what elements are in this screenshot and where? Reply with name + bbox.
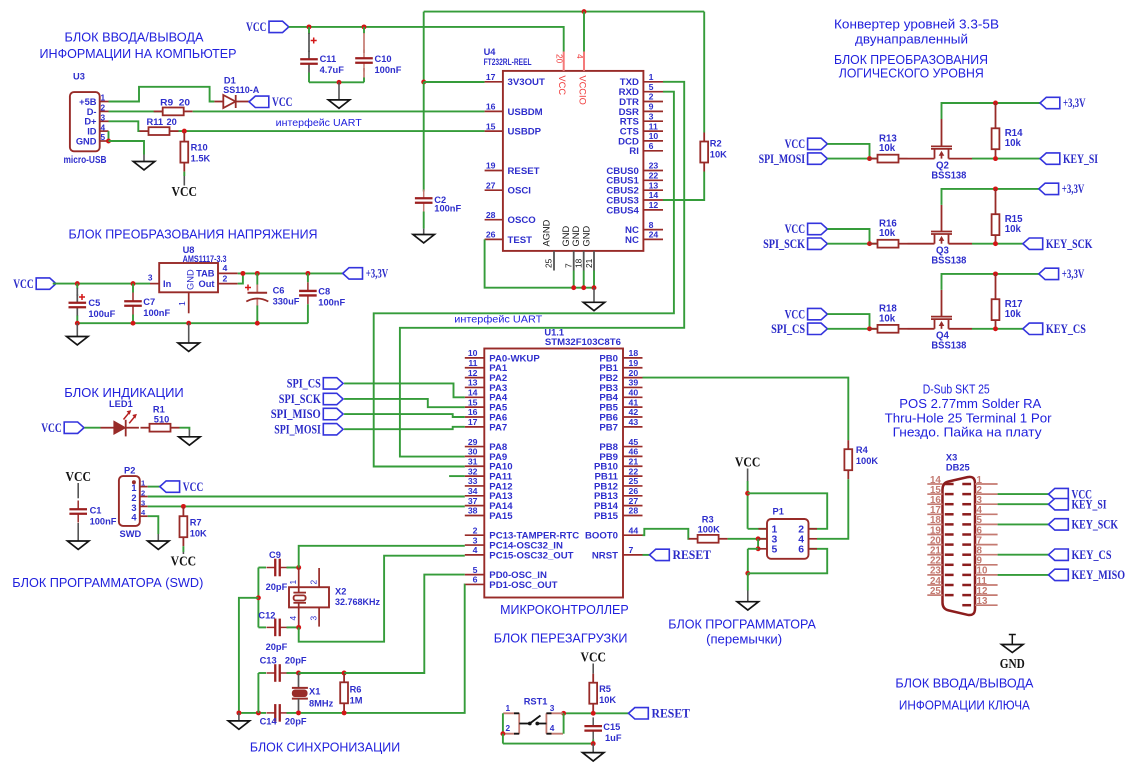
resistor R3: [689, 535, 728, 543]
wire to R2: [703, 12, 705, 133]
svg-text:SS110-A: SS110-A: [223, 85, 259, 95]
svg-text:БЛОК ПРОГРАММАТОРА (SWD): БЛОК ПРОГРАММАТОРА (SWD): [12, 576, 203, 590]
svg-text:БЛОК ВВОДА/ВЫВОДА: БЛОК ВВОДА/ВЫВОДА: [65, 31, 205, 45]
flag +3,3V regulator out: [343, 267, 389, 281]
wire R2 to CBUS3: [663, 172, 704, 201]
resistor R7: [180, 507, 188, 546]
wire to key flag: [972, 243, 1023, 245]
svg-text:10K: 10K: [190, 529, 207, 539]
svg-text:МИКРОКОНТРОЛЛЕР: МИКРОКОНТРОЛЛЕР: [500, 603, 629, 617]
svg-text:STM32F103C8T6: STM32F103C8T6: [545, 337, 621, 347]
IC U1.1 STM32F103C8T6: [465, 328, 643, 598]
resistor R6: [340, 673, 348, 712]
svg-text:20pF: 20pF: [266, 642, 288, 652]
wire to C8: [307, 273, 309, 282]
flag VCC LED: [41, 421, 84, 435]
svg-text:+3,3V: +3,3V: [1062, 182, 1085, 196]
wire C11 to gnd rail: [308, 73, 310, 83]
svg-text:TEST: TEST: [508, 235, 533, 246]
svg-text:22: 22: [649, 171, 659, 181]
svg-text:C12: C12: [258, 610, 275, 620]
svg-text:18: 18: [629, 348, 639, 358]
svg-text:C11: C11: [320, 54, 337, 64]
svg-text:Thru-Hole 25 Terminal 1 Por: Thru-Hole 25 Terminal 1 Por: [885, 412, 1052, 426]
wire pin5 left: [748, 548, 758, 550]
svg-text:GND: GND: [1000, 656, 1025, 671]
wire to pin1: [748, 528, 767, 530]
svg-text:AGND: AGND: [542, 219, 552, 246]
svg-text:ИНФОРМАЦИИ НА КОМПЬЮТЕР: ИНФОРМАЦИИ НА КОМПЬЮТЕР: [40, 47, 237, 61]
svg-text:SPI_SCK: SPI_SCK: [763, 237, 805, 251]
svg-text:5: 5: [101, 132, 106, 142]
wire to PC14: [299, 546, 465, 568]
junction: [867, 326, 872, 331]
svg-text:4: 4: [101, 122, 106, 132]
junction: [592, 285, 597, 290]
svg-text:3V3OUT: 3V3OUT: [508, 77, 545, 88]
wire BOOT0 to R3: [643, 529, 690, 539]
wire reset gnd row: [503, 743, 593, 745]
flag VCC regulator input: [13, 277, 56, 291]
svg-text:VCC: VCC: [580, 650, 606, 665]
junction: [307, 24, 312, 29]
svg-text:10: 10: [468, 348, 478, 358]
resistor R15: [992, 189, 1000, 244]
wire to C5: [76, 284, 78, 289]
wire VCC rail to U4 pin20: [289, 27, 564, 52]
svg-text:1uF: 1uF: [605, 733, 622, 743]
capacitor C8 100nF: [299, 282, 317, 304]
svg-text:16: 16: [468, 407, 478, 417]
svg-text:4: 4: [223, 263, 228, 273]
svg-text:3: 3: [473, 535, 478, 545]
wire GND net: [109, 141, 145, 155]
wire D- to USBDM: [193, 110, 485, 112]
wire cap gnd rail: [309, 81, 364, 83]
svg-text:C13: C13: [260, 656, 277, 666]
junction: [240, 271, 245, 276]
wire VCC to U8 In: [53, 283, 150, 285]
wire R7 down: [182, 546, 184, 552]
svg-text:3: 3: [148, 273, 153, 283]
junction: [756, 546, 761, 551]
svg-text:C15: C15: [603, 722, 620, 732]
svg-text:D-Sub SKT 25: D-Sub SKT 25: [923, 383, 990, 397]
svg-text:R10: R10: [191, 143, 208, 153]
wire C13 C14 left vertical: [257, 673, 259, 713]
wire SPI_CS to PA4: [344, 383, 465, 397]
svg-text:GND: GND: [581, 226, 591, 247]
C5 lead: [76, 288, 78, 296]
junction: [186, 321, 191, 326]
svg-text:10K: 10K: [710, 150, 727, 160]
wire ID to GND: [108, 131, 110, 141]
svg-text:7: 7: [564, 263, 574, 268]
capacitor C2 100nF: [415, 190, 433, 212]
svg-text:RESET: RESET: [652, 707, 691, 721]
svg-text:8: 8: [649, 220, 654, 230]
wire to C7: [132, 284, 134, 293]
wire to U4 pin4 VCCIO: [583, 12, 585, 52]
svg-text:25: 25: [930, 586, 941, 597]
junction: [296, 671, 301, 676]
wire RXD to PA10: [374, 92, 674, 467]
svg-text:NC: NC: [625, 235, 639, 246]
wire C7 down: [132, 315, 134, 324]
junction: [745, 571, 750, 576]
svg-text:8MHz: 8MHz: [309, 699, 334, 709]
capacitor C6 330uF: [245, 284, 268, 306]
connector P1 jumpers: [758, 507, 817, 559]
wire VCC to LED: [84, 427, 100, 429]
junction: [255, 271, 260, 276]
svg-text:X3: X3: [946, 453, 957, 463]
svg-text:NRST: NRST: [592, 550, 618, 561]
wire to key flag: [972, 158, 1040, 160]
wire D- to R9: [109, 110, 164, 112]
svg-text:PA15: PA15: [489, 511, 513, 522]
svg-text:5: 5: [772, 545, 778, 556]
svg-text:1M: 1M: [350, 696, 363, 706]
svg-text:12: 12: [468, 368, 478, 378]
svg-text:двунаправленный: двунаправленный: [855, 33, 968, 47]
wire signal to resistor: [827, 158, 878, 160]
flag KEY_SI X3: [1049, 497, 1107, 511]
svg-text:32: 32: [468, 466, 478, 476]
junction: [305, 271, 310, 276]
svg-text:2: 2: [649, 92, 654, 102]
flag SPI_CS: [287, 377, 343, 391]
svg-text:20pF: 20pF: [266, 582, 288, 592]
ground crystal block: [228, 721, 249, 729]
svg-text:VCC: VCC: [557, 75, 567, 95]
junction: [255, 321, 260, 326]
wire stub PA11: [449, 475, 465, 477]
flag SPI_SCK: [763, 237, 827, 251]
wire R3 to P1 pin3: [728, 538, 767, 540]
svg-text:13: 13: [649, 180, 659, 190]
svg-text:БЛОК ИНДИКАЦИИ: БЛОК ИНДИКАЦИИ: [64, 386, 184, 400]
resistor R13: [869, 155, 908, 163]
svg-text:29: 29: [468, 437, 478, 447]
wire signal to resistor: [827, 328, 878, 330]
svg-text:26: 26: [629, 486, 639, 496]
junction: [867, 241, 872, 246]
resistor R4: [844, 440, 852, 479]
wire C15 down: [592, 739, 594, 743]
svg-text:KEY_SCK: KEY_SCK: [1046, 237, 1093, 251]
svg-text:100K: 100K: [698, 525, 721, 535]
svg-text:VCC: VCC: [735, 455, 761, 470]
svg-text:VCC: VCC: [65, 469, 91, 484]
svg-text:1: 1: [101, 93, 106, 103]
wire +5B net: [109, 87, 215, 102]
svg-text:БЛОК СИНХРОНИЗАЦИИ: БЛОК СИНХРОНИЗАЦИИ: [250, 741, 400, 755]
svg-text:GND: GND: [76, 136, 97, 146]
capacitor C15 1uF: [584, 717, 602, 739]
connector X3 DB25: [927, 453, 997, 616]
svg-text:1.5K: 1.5K: [191, 154, 211, 164]
svg-text:3: 3: [550, 703, 555, 713]
junction: [236, 710, 241, 715]
junction: [591, 741, 596, 746]
svg-text:4.7uF: 4.7uF: [320, 65, 345, 75]
wire VCC jog: [827, 314, 869, 329]
svg-text:22: 22: [629, 466, 639, 476]
junction: [362, 24, 367, 29]
svg-text:C14: C14: [260, 717, 278, 727]
wire to gnd vertical: [239, 598, 259, 713]
junction: [582, 9, 587, 14]
wire P2 pin3 to PA14: [148, 505, 465, 507]
junction: [296, 565, 301, 570]
junction: [131, 281, 136, 286]
svg-text:4: 4: [550, 723, 555, 733]
svg-text:25: 25: [629, 476, 639, 486]
svg-text:D-: D-: [87, 107, 97, 117]
wire gnd loop to pin6: [748, 549, 827, 574]
connector P2 SWD: [119, 465, 148, 539]
LED LED1: [101, 399, 139, 436]
svg-text:БЛОК ПЕРЕЗАГРУЗКИ: БЛОК ПЕРЕЗАГРУЗКИ: [494, 632, 628, 646]
svg-text:R3: R3: [702, 515, 714, 525]
wire R5 to node: [592, 712, 594, 715]
junction: [75, 321, 80, 326]
wire P2 pin1: [148, 486, 160, 488]
svg-text:VCC: VCC: [785, 222, 806, 236]
flag KEY_CS: [1023, 322, 1086, 336]
svg-text:330uF: 330uF: [273, 297, 300, 307]
transistor Q4 BSS138: [908, 290, 973, 352]
ground under U4: [583, 302, 604, 310]
svg-text:VCC: VCC: [41, 421, 62, 435]
svg-text:10k: 10k: [879, 143, 896, 154]
junction: [745, 491, 750, 496]
svg-text:In: In: [163, 279, 172, 289]
wire C12 right: [287, 626, 299, 628]
svg-text:GND: GND: [186, 269, 196, 290]
flag VCC top rail: [246, 20, 289, 34]
svg-text:AMS1117-3.3: AMS1117-3.3: [183, 254, 227, 264]
svg-text:OSCO: OSCO: [508, 215, 537, 226]
svg-text:1: 1: [131, 483, 136, 493]
svg-text:KEY_CS: KEY_CS: [1072, 548, 1112, 562]
wire RESET node: [564, 712, 629, 714]
svg-text:БЛОК ВВОДА/ВЫВОДА: БЛОК ВВОДА/ВЫВОДА: [895, 677, 1034, 691]
svg-text:SPI_CS: SPI_CS: [287, 377, 321, 391]
ground under C15: [583, 753, 604, 761]
svg-text:12: 12: [649, 200, 659, 210]
svg-text:100K: 100K: [856, 456, 879, 466]
svg-text:38: 38: [468, 506, 478, 516]
svg-text:24: 24: [649, 230, 659, 240]
svg-text:17: 17: [486, 72, 496, 82]
svg-text:18: 18: [574, 258, 584, 268]
svg-text:41: 41: [629, 397, 639, 407]
junction: [106, 139, 111, 144]
svg-text:R9 20: R9 20: [160, 97, 190, 107]
svg-text:VCCIO: VCCIO: [577, 75, 587, 104]
ground under R1: [179, 437, 200, 445]
wire P2 pin4 to gnd: [148, 516, 159, 534]
wire VCC down to pin1: [747, 481, 749, 529]
svg-text:20pF: 20pF: [285, 656, 307, 666]
GND symbol near X3: [1000, 635, 1025, 672]
wire regulator gnd rail: [77, 322, 308, 324]
wire D+ to USBDP: [179, 130, 485, 132]
svg-text:БЛОК ПРЕОБРАЗОВАНИЯ НАПРЯЖЕНИЯ: БЛОК ПРЕОБРАЗОВАНИЯ НАПРЯЖЕНИЯ: [69, 227, 318, 241]
wire X3 pin8 KEY_CS: [998, 554, 1049, 556]
resistor R14: [992, 103, 1000, 159]
svg-text:C1: C1: [90, 506, 102, 516]
wire RST1 right loop: [563, 713, 565, 733]
svg-text:40: 40: [629, 388, 639, 398]
junction: [131, 321, 136, 326]
wire 3V3 rail top: [424, 11, 705, 13]
svg-text:Конвертер уровней 3.3-5В: Конвертер уровней 3.3-5В: [834, 18, 999, 32]
svg-text:VCC: VCC: [13, 277, 34, 291]
capacitor C12 20pF: [267, 619, 289, 637]
resistor R1: [141, 424, 180, 432]
svg-text:OSCI: OSCI: [508, 186, 532, 197]
svg-text:интерфейс UART: интерфейс UART: [454, 314, 543, 326]
wire R4 to P1 pin4: [817, 479, 848, 539]
flag SPI_SCK: [279, 392, 343, 406]
svg-text:2: 2: [141, 489, 145, 498]
svg-text:P1: P1: [773, 507, 784, 517]
wire to 3V3OUT pin: [424, 81, 485, 83]
flag KEY_SCK: [1023, 237, 1093, 251]
flag KEY_SCK X3: [1049, 518, 1119, 532]
capacitor C13 20pF: [267, 664, 289, 682]
svg-text:PC15-OSC32_OUT: PC15-OSC32_OUT: [489, 550, 573, 561]
junction: [342, 710, 347, 715]
capacitor C1 100nF: [69, 501, 87, 523]
svg-text:37: 37: [468, 496, 478, 506]
junction: [256, 595, 261, 600]
svg-text:10k: 10k: [879, 313, 896, 324]
svg-text:21: 21: [629, 456, 639, 466]
resistor R18: [869, 325, 908, 333]
svg-text:23: 23: [649, 161, 659, 171]
svg-text:C10: C10: [375, 54, 392, 64]
svg-text:VCC: VCC: [785, 307, 806, 321]
flag RESET at NRST: [650, 548, 712, 562]
junction: [867, 156, 872, 161]
svg-text:6: 6: [473, 575, 478, 585]
svg-text:27: 27: [629, 496, 639, 506]
svg-text:C7: C7: [143, 297, 155, 307]
svg-text:R6: R6: [350, 685, 362, 695]
svg-text:43: 43: [629, 417, 639, 427]
ground under U3: [133, 162, 154, 170]
svg-text:3: 3: [101, 113, 106, 123]
svg-text:2: 2: [131, 493, 136, 503]
svg-text:RI: RI: [629, 146, 639, 157]
svg-text:21: 21: [584, 258, 594, 268]
ground under P1: [737, 602, 758, 610]
svg-text:4: 4: [473, 545, 478, 555]
svg-text:100nF: 100nF: [318, 298, 345, 308]
junction: [256, 710, 261, 715]
wire Out up to rail: [238, 273, 243, 283]
svg-text:15: 15: [486, 121, 496, 131]
junction: [993, 326, 998, 331]
svg-text:13: 13: [468, 378, 478, 388]
capacitor C9 20pF: [267, 559, 289, 577]
svg-text:28: 28: [486, 210, 496, 220]
svg-text:2: 2: [473, 525, 478, 535]
svg-text:+5B: +5B: [79, 97, 97, 107]
svg-text:2: 2: [506, 723, 511, 733]
svg-text:BSS138: BSS138: [931, 341, 967, 352]
svg-text:FT232RL-REEL: FT232RL-REEL: [484, 57, 532, 67]
wire C5 down: [76, 316, 78, 324]
junction: [561, 711, 566, 716]
wire X3 pin3 KEY_SI: [998, 503, 1049, 505]
svg-text:PB15: PB15: [594, 511, 619, 522]
svg-text:30: 30: [468, 447, 478, 457]
junction: [337, 80, 342, 85]
svg-text:1: 1: [141, 479, 145, 488]
svg-text:ЛОГИЧЕСКОГО УРОВНЯ: ЛОГИЧЕСКОГО УРОВНЯ: [839, 66, 984, 80]
svg-text:14: 14: [468, 388, 478, 398]
wire SPI_SCK to PA5: [344, 399, 465, 407]
svg-text:1: 1: [649, 72, 654, 82]
wire 3.3V out rail: [238, 272, 343, 274]
svg-text:C6: C6: [273, 286, 285, 296]
svg-text:+3,3V: +3,3V: [366, 267, 389, 281]
svg-text:19: 19: [486, 161, 496, 171]
wire C2 to gnd: [423, 212, 425, 229]
svg-text:БЛОК ПРЕОБРАЗОВАНИЯ: БЛОК ПРЕОБРАЗОВАНИЯ: [834, 53, 988, 67]
svg-text:13: 13: [977, 596, 988, 607]
wire R1 to gnd: [180, 428, 190, 430]
wire bottom rail to PD1: [287, 584, 465, 713]
svg-text:2: 2: [308, 580, 318, 585]
svg-text:20pF: 20pF: [285, 717, 307, 727]
svg-text:GND: GND: [561, 226, 571, 247]
flag RESET source: [629, 707, 691, 721]
flag VCC shifter Q4: [785, 307, 828, 321]
svg-text:ИНФОРМАЦИИ КЛЮЧА: ИНФОРМАЦИИ КЛЮЧА: [899, 699, 1031, 713]
svg-text:BSS138: BSS138: [931, 170, 967, 181]
svg-text:DB25: DB25: [946, 462, 970, 472]
wire C12 left: [258, 626, 266, 628]
svg-text:VCC: VCC: [171, 554, 197, 569]
wire C8 down: [307, 304, 309, 323]
svg-text:46: 46: [629, 447, 639, 457]
ground under P2: [148, 541, 169, 549]
svg-text:BSS138: BSS138: [931, 255, 967, 266]
svg-text:25: 25: [544, 258, 554, 268]
diode D1 SS110-A: [214, 76, 259, 109]
svg-text:4: 4: [288, 616, 298, 621]
svg-text:1: 1: [288, 580, 298, 585]
svg-text:CBUS4: CBUS4: [606, 205, 639, 216]
wire left vertical to 3V3OUT: [423, 12, 425, 82]
wire signal to resistor: [827, 243, 878, 245]
ground under C10 C11: [328, 100, 349, 108]
wire VCC jog: [827, 144, 869, 159]
svg-text:6: 6: [649, 141, 654, 151]
svg-text:R5: R5: [599, 684, 611, 694]
transistor Q3 BSS138: [908, 205, 973, 267]
svg-text:2: 2: [101, 103, 106, 113]
flag SPI_MISO: [271, 407, 343, 421]
svg-text:4: 4: [575, 54, 585, 59]
wire down to C2: [423, 82, 425, 192]
